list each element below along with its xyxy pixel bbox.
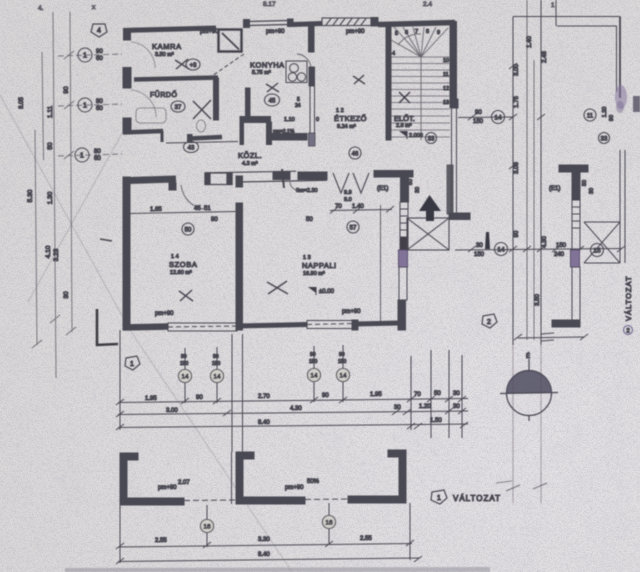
svg-text:pm+90: pm+90 — [346, 29, 365, 35]
svg-text:1.40: 1.40 — [352, 204, 364, 210]
svg-text:1: 1 — [80, 153, 84, 160]
svg-text:0m=2.30: 0m=2.30 — [296, 188, 318, 194]
svg-text:±0.00: ±0.00 — [319, 289, 335, 295]
svg-text:150: 150 — [309, 359, 318, 365]
svg-text:VÁLTOZAT: VÁLTOZAT — [453, 494, 501, 503]
svg-text:5.75 m²: 5.75 m² — [252, 70, 271, 76]
svg-text:12: 12 — [443, 86, 449, 92]
svg-text:30: 30 — [453, 404, 460, 410]
svg-text:2: 2 — [487, 319, 491, 326]
svg-text:30: 30 — [394, 405, 401, 411]
svg-text:16: 16 — [325, 520, 333, 527]
svg-text:pm+90: pm+90 — [342, 309, 361, 315]
svg-text:2.55: 2.55 — [155, 538, 167, 544]
svg-text:1.65: 1.65 — [150, 207, 162, 213]
svg-text:50%: 50% — [307, 479, 320, 485]
svg-text:150: 150 — [473, 119, 484, 125]
svg-text:(E1): (E1) — [549, 186, 560, 192]
svg-text:90: 90 — [213, 354, 219, 360]
svg-text:150: 150 — [180, 361, 189, 367]
svg-text:4: 4 — [97, 28, 101, 35]
svg-text:8.40: 8.40 — [258, 420, 270, 426]
svg-text:3.50 m²: 3.50 m² — [155, 52, 174, 58]
svg-text:pm+90: pm+90 — [285, 485, 304, 491]
svg-text:90: 90 — [475, 110, 482, 116]
svg-text:45: 45 — [194, 206, 201, 212]
svg-text:1.95: 1.95 — [145, 396, 157, 402]
svg-text:É: É — [526, 353, 530, 360]
svg-text:90: 90 — [96, 49, 103, 55]
svg-text:4.3 m²: 4.3 m² — [242, 161, 258, 167]
svg-text:30: 30 — [453, 391, 460, 397]
svg-text:1: 1 — [83, 53, 87, 60]
svg-text:1.95: 1.95 — [370, 392, 382, 398]
svg-text:1: 1 — [551, 2, 555, 9]
svg-text:12.60 m²: 12.60 m² — [170, 270, 192, 276]
svg-text:16.90 m²: 16.90 m² — [303, 271, 325, 277]
svg-text:90: 90 — [609, 115, 615, 121]
svg-text:6: 6 — [405, 30, 408, 36]
svg-text:50: 50 — [582, 180, 588, 186]
svg-text:9: 9 — [437, 30, 440, 36]
svg-text:0: 0 — [316, 117, 319, 123]
svg-text:60: 60 — [94, 156, 101, 162]
svg-text:1 2: 1 2 — [336, 108, 344, 114]
svg-text:33: 33 — [428, 137, 435, 143]
svg-text:1.50: 1.50 — [430, 418, 442, 424]
svg-text:2.07: 2.07 — [178, 480, 190, 486]
svg-text:14: 14 — [339, 373, 347, 380]
svg-text:pm+90: pm+90 — [158, 485, 177, 491]
svg-text:24: 24 — [295, 103, 301, 109]
svg-text:1.40: 1.40 — [527, 36, 533, 48]
svg-text:3.00: 3.00 — [514, 162, 520, 174]
svg-text:9.24 m²: 9.24 m² — [337, 124, 356, 130]
svg-text:1: 1 — [130, 361, 134, 368]
svg-text:10: 10 — [443, 58, 449, 64]
svg-text:14: 14 — [213, 374, 221, 381]
svg-text:13: 13 — [443, 100, 449, 106]
svg-text:2.55: 2.55 — [360, 536, 372, 542]
svg-text:2.000: 2.000 — [409, 133, 423, 139]
svg-text:50: 50 — [47, 142, 54, 150]
svg-text:2.6 m²: 2.6 m² — [396, 123, 412, 129]
svg-text:8: 8 — [426, 29, 429, 35]
svg-text:150: 150 — [338, 359, 347, 365]
svg-text:51: 51 — [204, 206, 211, 212]
svg-text:90: 90 — [514, 230, 520, 237]
svg-text:50: 50 — [434, 391, 441, 397]
svg-text:1.20: 1.20 — [602, 107, 608, 118]
svg-text:30: 30 — [415, 187, 421, 193]
svg-text:9.9: 9.9 — [344, 190, 352, 196]
svg-text:46: 46 — [352, 152, 359, 158]
svg-text:(E1): (E1) — [377, 186, 388, 192]
svg-text:30: 30 — [589, 188, 595, 194]
svg-text:8.17: 8.17 — [263, 1, 276, 8]
svg-text:80: 80 — [94, 149, 101, 155]
svg-text:FÜRDŐ: FÜRDŐ — [150, 90, 177, 99]
svg-text:14: 14 — [310, 373, 318, 380]
svg-text:+3: +3 — [190, 63, 198, 69]
svg-text:3.00: 3.00 — [514, 64, 520, 76]
svg-text:33: 33 — [601, 137, 608, 143]
svg-text:45: 45 — [269, 99, 276, 105]
svg-text:3.50: 3.50 — [535, 294, 541, 306]
svg-text:KÖZL.: KÖZL. — [238, 151, 262, 160]
svg-text:150: 150 — [212, 361, 221, 367]
svg-text:4.: 4. — [38, 5, 44, 12]
svg-text:4.30: 4.30 — [290, 406, 302, 412]
svg-text:1.20: 1.20 — [419, 404, 431, 410]
svg-text:60: 60 — [96, 56, 103, 62]
svg-text:30: 30 — [63, 291, 70, 299]
svg-text:37: 37 — [175, 105, 182, 111]
svg-text:1: 1 — [83, 103, 87, 110]
svg-text:1.11: 1.11 — [47, 106, 54, 119]
svg-text:KAMRA: KAMRA — [152, 42, 182, 51]
svg-text:50: 50 — [306, 217, 313, 223]
svg-text:5: 5 — [395, 31, 398, 37]
svg-text:SZOBA: SZOBA — [169, 260, 197, 269]
svg-text:90: 90 — [181, 354, 187, 360]
svg-text:150: 150 — [556, 243, 567, 249]
svg-text:70: 70 — [335, 204, 342, 210]
svg-text:4.30: 4.30 — [542, 236, 548, 248]
svg-text:90: 90 — [63, 86, 70, 94]
svg-text:60: 60 — [96, 106, 103, 112]
svg-text:11: 11 — [443, 72, 449, 78]
svg-text:8.40: 8.40 — [258, 552, 270, 558]
svg-text:2.4: 2.4 — [423, 1, 432, 8]
svg-text:1.75: 1.75 — [514, 96, 520, 108]
svg-text:8.05: 8.05 — [19, 97, 25, 109]
svg-text:57: 57 — [350, 226, 357, 232]
svg-text:NAPPALI: NAPPALI — [302, 261, 337, 270]
svg-text:14: 14 — [494, 115, 502, 122]
svg-text:pm+90: pm+90 — [200, 29, 219, 35]
svg-text:2.70: 2.70 — [258, 394, 270, 400]
svg-text:14: 14 — [181, 374, 189, 381]
svg-text:5.30: 5.30 — [27, 189, 34, 202]
svg-text:3.30: 3.30 — [258, 537, 270, 543]
svg-text:70: 70 — [414, 392, 421, 398]
svg-text:16: 16 — [203, 524, 211, 531]
svg-text:2.48: 2.48 — [542, 51, 548, 63]
svg-text:ELŐT.: ELŐT. — [394, 114, 415, 123]
svg-text:43: 43 — [188, 146, 195, 152]
svg-text:50: 50 — [185, 228, 192, 234]
svg-text:3.23: 3.23 — [53, 248, 60, 261]
svg-text:VÁLTOZAT: VÁLTOZAT — [624, 275, 633, 321]
svg-text:50: 50 — [408, 179, 414, 185]
svg-text:7: 7 — [415, 29, 418, 35]
svg-text:80: 80 — [96, 99, 103, 105]
svg-text:30: 30 — [476, 243, 483, 249]
svg-text:90: 90 — [339, 352, 345, 358]
svg-text:KONYHA: KONYHA — [250, 61, 285, 70]
svg-text:150: 150 — [474, 252, 485, 258]
svg-text:pm+90: pm+90 — [266, 29, 285, 35]
svg-text:9.0: 9.0 — [344, 197, 352, 203]
svg-text:14: 14 — [497, 247, 505, 254]
svg-text:90: 90 — [196, 395, 203, 401]
svg-text:pm+90: pm+90 — [155, 311, 174, 317]
svg-text:90: 90 — [322, 393, 329, 399]
svg-text:90: 90 — [310, 352, 316, 358]
svg-text:3.00: 3.00 — [166, 408, 178, 414]
svg-text:4.10: 4.10 — [45, 245, 52, 258]
svg-text:1.10: 1.10 — [284, 117, 295, 123]
svg-text:240: 240 — [554, 252, 565, 258]
svg-text:11: 11 — [587, 114, 594, 120]
svg-text:1: 1 — [437, 495, 441, 502]
svg-text:1.30: 1.30 — [47, 191, 54, 204]
svg-text:90: 90 — [211, 217, 218, 223]
svg-text:4: 4 — [392, 51, 395, 57]
svg-text:ÉTKEZŐ: ÉTKEZŐ — [334, 114, 367, 123]
